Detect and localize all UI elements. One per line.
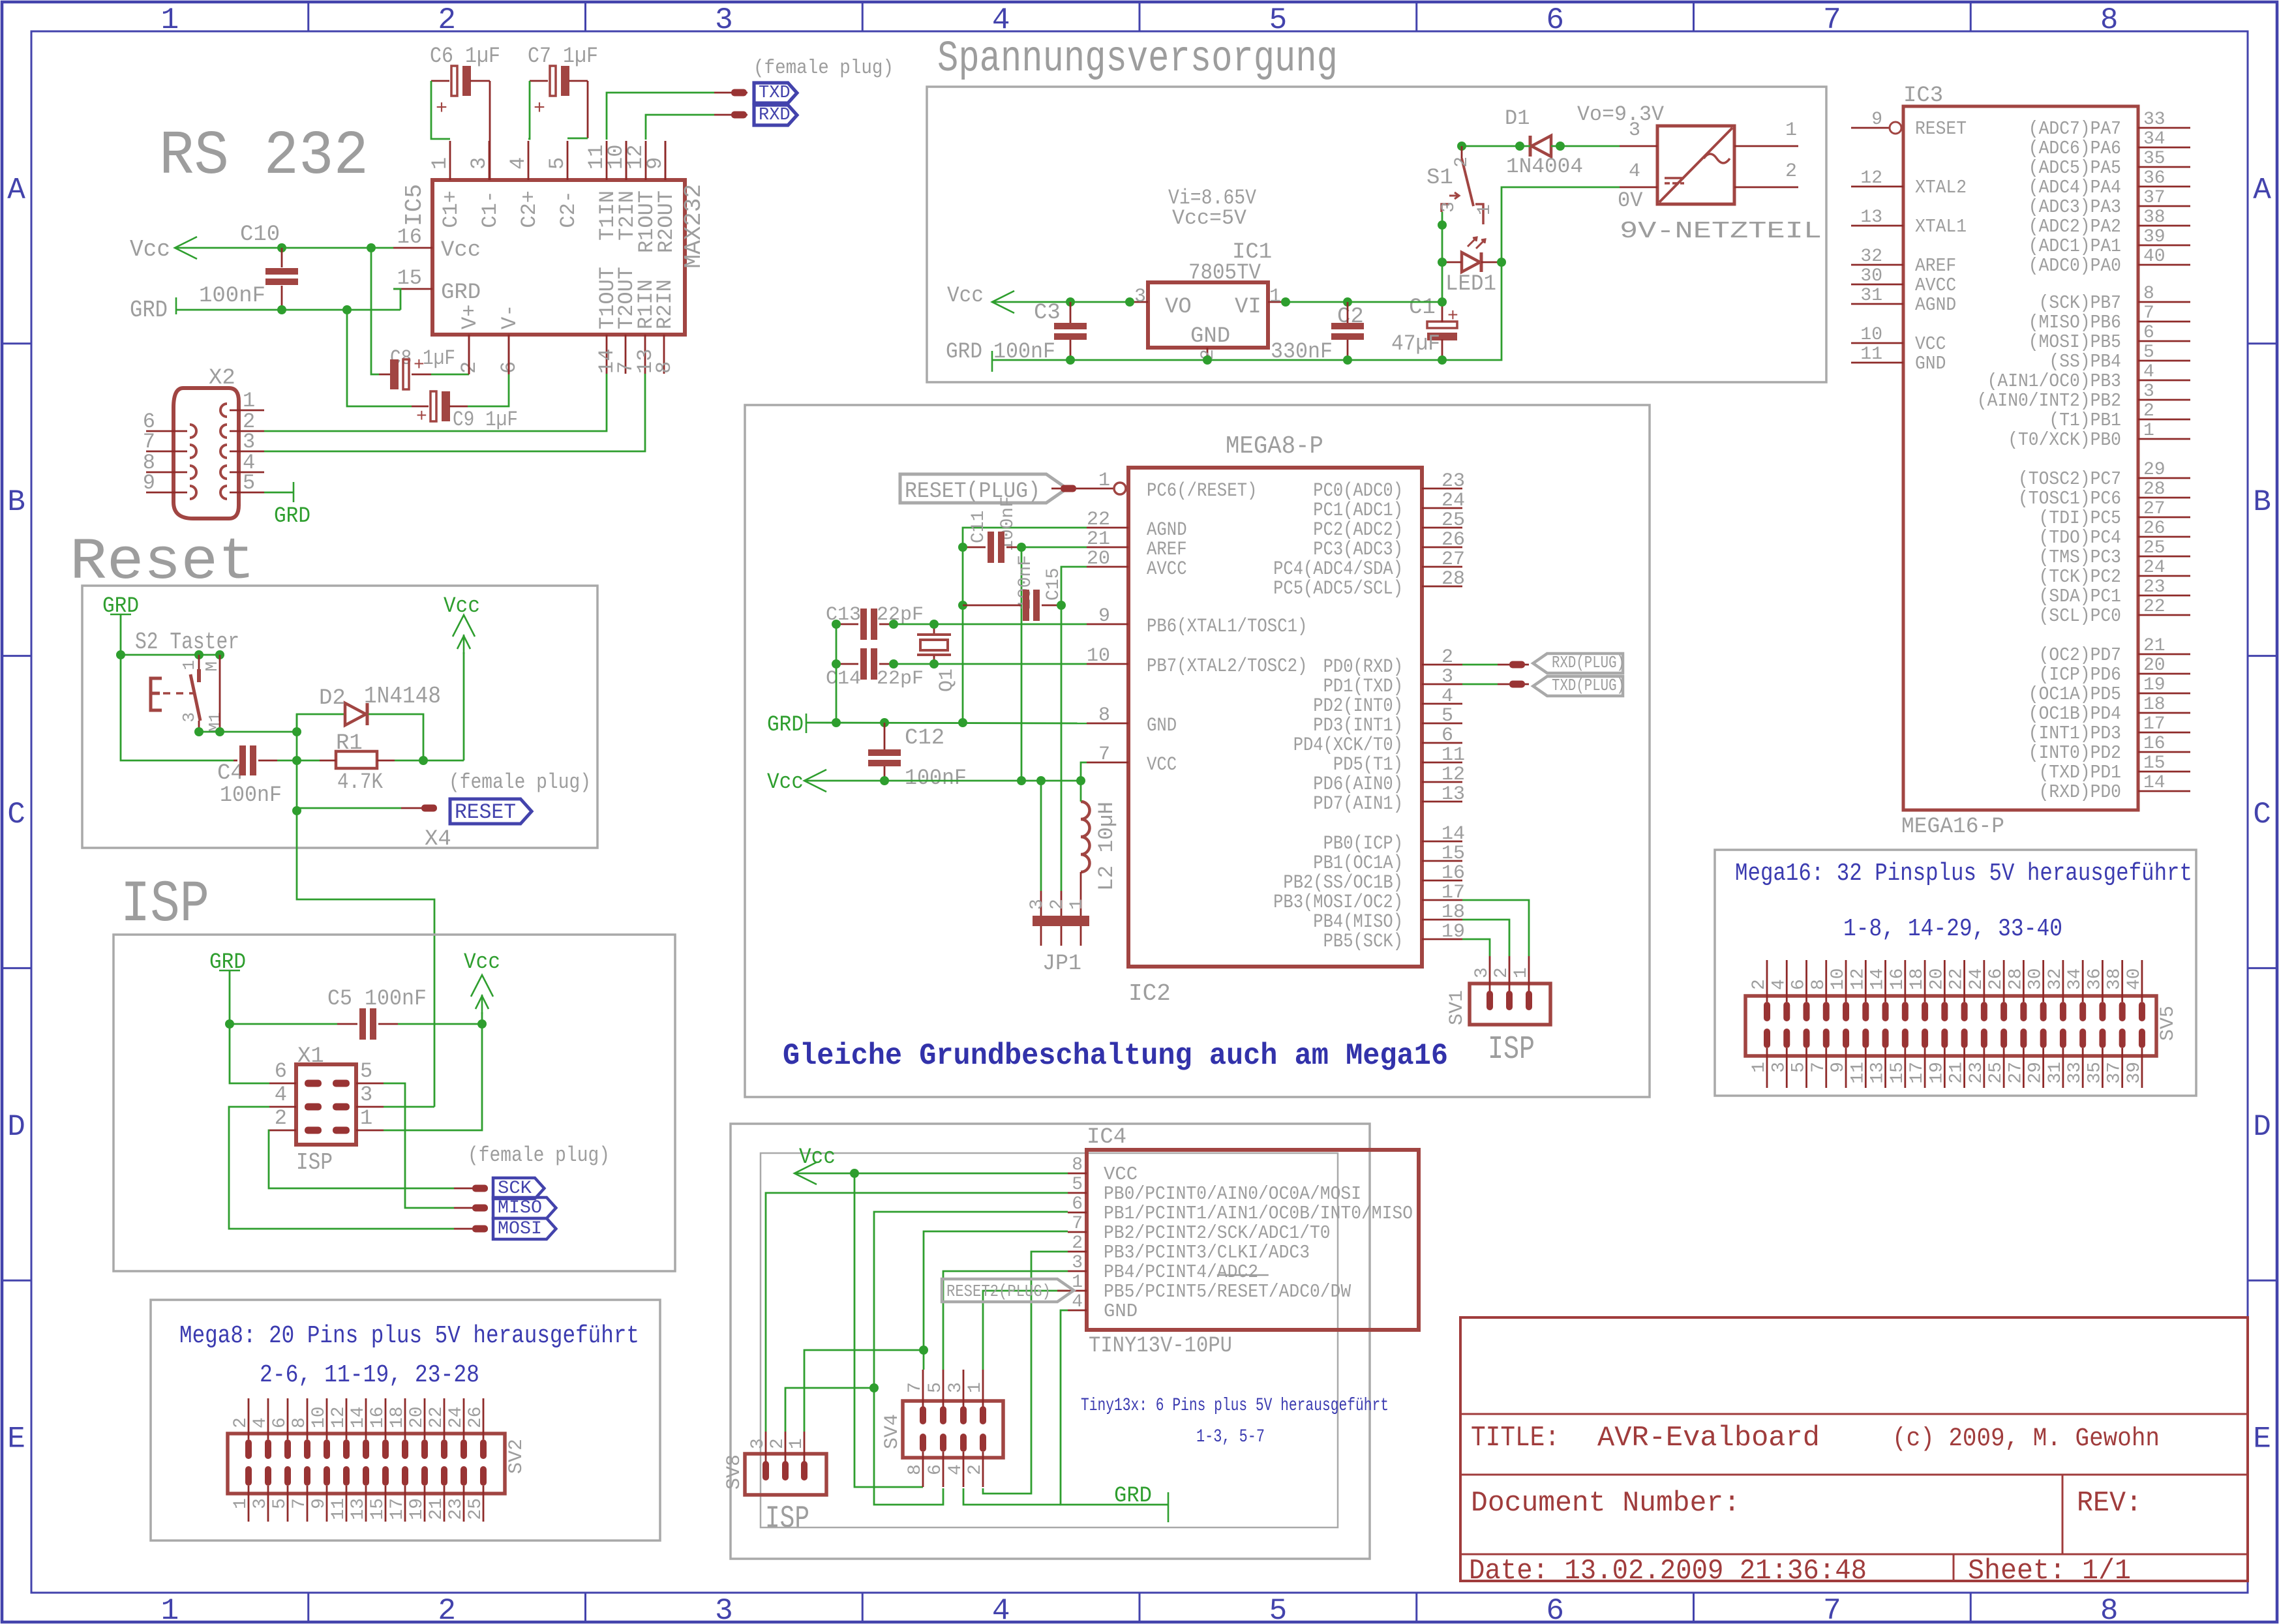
svg-text:C2+: C2+ [517,190,541,228]
svg-text:PB3(MOSI/OC2): PB3(MOSI/OC2) [1273,892,1403,914]
wire C6 left to IC5 pin1 [431,81,450,139]
svg-text:21: 21 [1947,1062,1967,1084]
frame column tick top [1139,3,1141,31]
svg-text:C1-: C1- [478,190,502,228]
IC5 pin 5 C2- [567,141,569,180]
9V-NETZTEIL DC symbol [1665,177,1684,179]
wire R1 to Vcc [395,760,464,762]
svg-text:1: 1 [965,1382,986,1393]
svg-text:33: 33 [2065,1062,2085,1084]
connector X2 DB9 body [174,388,239,519]
flag MOSI [454,1228,488,1230]
svg-text:34: 34 [2143,129,2166,149]
svg-text:2-6, 11-19, 23-28: 2-6, 11-19, 23-28 [260,1361,479,1389]
svg-text:C: C [2253,798,2271,832]
svg-text:1: 1 [787,1438,807,1449]
svg-text:20: 20 [2143,655,2166,676]
svg-text:13: 13 [1860,207,1882,228]
SV5 pin 38 [2121,960,2123,1002]
svg-text:9: 9 [1098,605,1110,627]
svg-text:+: + [416,407,427,427]
SV5 pin 16 [1904,960,1906,1002]
IC IC3 MEGA16 body [1903,106,2138,810]
IC3 pin 22 (SCL)PC0 [2138,614,2190,616]
svg-text:REV:: REV: [2077,1487,2142,1520]
svg-text:Vcc=5V: Vcc=5V [1172,206,1247,230]
svg-text:15: 15 [1441,843,1465,865]
svg-text:VCC: VCC [1147,754,1177,776]
IC3 pin 38 (ADC2)PA2 [2138,225,2190,227]
title block divider REV cell [2062,1475,2064,1554]
svg-text:14: 14 [1868,968,1888,990]
svg-text:4.7K: 4.7K [337,770,384,795]
svg-text:MAX232: MAX232 [680,184,707,269]
LED LED1 [1462,252,1480,272]
svg-text:SV8: SV8 [723,1454,746,1490]
svg-text:6: 6 [1546,1594,1564,1624]
wire Vcc rail tiny [794,1173,1068,1175]
svg-text:GND: GND [1104,1301,1138,1322]
svg-text:C6 1µF: C6 1µF [430,44,500,69]
svg-text:GRD: GRD [946,340,982,365]
svg-text:(SCK)PB7: (SCK)PB7 [2039,292,2121,314]
X2 pin 9 [190,486,196,499]
svg-text:A: A [2253,173,2271,207]
svg-text:6: 6 [2143,323,2154,343]
svg-text:3: 3 [2143,382,2154,402]
svg-text:47µF: 47µF [1391,332,1440,357]
svg-text:(MISO)PB6: (MISO)PB6 [2029,312,2121,333]
connector X1 body [296,1064,356,1145]
svg-text:39: 39 [2124,1062,2145,1084]
svg-text:5: 5 [270,1498,290,1509]
svg-text:(c) 2009, M. Gewohn: (c) 2009, M. Gewohn [1892,1424,2160,1454]
IC2 pin 20 AVCC [1087,566,1128,568]
svg-text:3: 3 [715,3,733,37]
SV5 pin 28 [2023,960,2025,1002]
junction [1017,543,1026,552]
svg-text:PD1(TXD): PD1(TXD) [1323,676,1403,698]
SV4 pin 3 [963,1370,965,1407]
svg-text:XTAL1: XTAL1 [1915,216,1967,237]
IC5 pin 16 Vcc [393,247,432,249]
SV4 pin 1 [982,1370,984,1407]
svg-text:7: 7 [1072,1214,1083,1234]
svg-text:(T0/XCK)PB0: (T0/XCK)PB0 [2008,429,2121,451]
svg-text:3: 3 [1769,1062,1789,1073]
svg-text:29: 29 [2143,460,2166,480]
X2 pin 4 [220,466,227,479]
svg-text:16: 16 [1888,968,1908,990]
junction [1203,355,1212,365]
IC3 pin 26 (TDO)PC4 [2138,536,2190,538]
svg-text:D: D [7,1110,25,1144]
junction [215,727,224,736]
svg-text:6: 6 [1789,979,1809,990]
wire S2 bottom rail [199,731,297,733]
flag RESET2(PLUG) [1057,1290,1068,1292]
IC2 pin 28 PC5(ADC5/SCL) [1422,586,1462,588]
SV5 pin 34 [2082,960,2084,1002]
svg-text:VO: VO [1165,295,1192,320]
svg-text:Mega8: 20 Pins plus 5V herausg: Mega8: 20 Pins plus 5V herausgeführt [179,1322,639,1350]
svg-text:5: 5 [1269,3,1288,37]
SV5 pin 27 [2020,1029,2027,1048]
IC3 pin 25 (TMS)PC3 [2138,556,2190,558]
SV2 pin 13 [363,1466,369,1486]
IC4 pin 7 PB2/PCINT2/SCK/ADC1/T0 [1068,1231,1087,1233]
svg-text:7: 7 [905,1382,926,1393]
section box Tiny13 [731,1124,1370,1559]
svg-text:1: 1 [1475,204,1495,215]
svg-text:+: + [414,355,425,376]
IC3 pin 30 AVCC [1851,284,1903,286]
svg-text:36: 36 [2085,968,2105,990]
svg-text:18: 18 [1907,968,1927,990]
svg-text:Vcc: Vcc [444,594,480,619]
IC2 pin 24 PC1(ADC1) [1422,507,1462,509]
IC3 pin 34 (ADC6)PA6 [2138,147,2190,149]
svg-text:R2OUT: R2OUT [654,190,678,253]
svg-text:M: M [202,661,222,672]
svg-text:24: 24 [1967,968,1987,990]
svg-text:12: 12 [1848,968,1868,990]
svg-text:6: 6 [926,1464,946,1475]
wire junction to SV8 pin1 [804,1350,924,1432]
frame row tick left [3,655,31,657]
frame column tick bottom [307,1593,309,1621]
svg-text:GRD: GRD [767,713,804,738]
svg-text:16: 16 [397,225,422,249]
wire S2 to diode branch [297,714,344,732]
svg-text:Date: 13.02.2009 21:36:48: Date: 13.02.2009 21:36:48 [1469,1555,1867,1587]
SV1 pin 3 [1489,956,1491,993]
wire X1 pin2 to SCK [269,1130,454,1188]
wire C7 right to IC5 pin5 [587,81,589,138]
svg-text:7: 7 [1823,3,1841,37]
junction [1457,142,1466,151]
Vcc arrow isp [471,975,493,997]
SV2 pin 2 [248,1398,250,1439]
wire PD1 to TXD plug [1462,684,1498,685]
junction [958,543,967,552]
svg-text:AVCC: AVCC [1915,275,1956,296]
svg-text:Sheet: 1/1: Sheet: 1/1 [1968,1555,2131,1587]
svg-text:Vcc: Vcc [464,950,500,975]
svg-text:(INT0)PD2: (INT0)PD2 [2029,742,2121,764]
svg-text:(AIN0/INT2)PB2: (AIN0/INT2)PB2 [1977,390,2121,412]
svg-text:ISP: ISP [296,1149,333,1176]
svg-text:18: 18 [387,1406,408,1428]
IC4 pin 1 PB5/PCINT5/RESET/ADC0/DW [1068,1290,1087,1292]
svg-text:6: 6 [1546,3,1564,37]
IC U5 MAX232 body [432,180,685,335]
svg-text:(INT1)PD3: (INT1)PD3 [2029,723,2121,744]
IC2 pin 2 PD0(RXD) [1422,664,1462,666]
svg-text:9V-NETZTEIL: 9V-NETZTEIL [1620,218,1822,245]
svg-text:(ADC2)PA2: (ADC2)PA2 [2029,216,2121,237]
svg-text:39: 39 [2143,227,2166,247]
frame row tick left [3,1280,31,1282]
wire GRD branch to C9 [347,310,412,406]
svg-text:8: 8 [905,1464,926,1475]
svg-text:8: 8 [2100,3,2119,37]
svg-text:1: 1 [161,1594,179,1624]
svg-text:TXD: TXD [759,83,791,103]
wire C8 to IC5 pin2 [431,374,469,376]
SV8 pin 1 [804,1432,806,1463]
SV2 pin 7 [304,1466,310,1486]
junction [215,650,224,659]
svg-text:(ADC7)PA7: (ADC7)PA7 [2029,118,2121,140]
svg-text:PC5(ADC5/SCL): PC5(ADC5/SCL) [1273,578,1403,600]
svg-text:6: 6 [1072,1194,1083,1214]
junction [869,1383,879,1392]
junction [1066,355,1075,365]
junction [194,727,204,736]
svg-text:AGND: AGND [1915,294,1956,316]
svg-text:22pF: 22pF [877,668,924,690]
svg-text:1: 1 [1511,967,1532,978]
svg-text:2: 2 [1072,1233,1083,1254]
IC3 pin 17 (INT1)PD3 [2138,732,2190,734]
wire Vcc to IC5 pin16 [175,247,393,249]
svg-text:7: 7 [1098,744,1110,766]
svg-text:(ADC0)PA0: (ADC0)PA0 [2029,255,2121,277]
X1 pin 2 [305,1127,322,1134]
svg-text:Q1: Q1 [936,669,958,692]
svg-text:PB0(ICP): PB0(ICP) [1323,833,1403,855]
IC3 pin 16 (INT0)PD2 [2138,751,2190,753]
svg-text:TXD(PLUG): TXD(PLUG) [1552,676,1625,695]
IC2 pin 1 PC6(/RESET) [1087,488,1113,490]
svg-text:PB6(XTAL1/TOSC1): PB6(XTAL1/TOSC1) [1147,616,1307,638]
wire reset net down to ISP section [297,811,434,1107]
svg-text:8: 8 [1098,704,1110,727]
svg-text:PB7(XTAL2/TOSC2): PB7(XTAL2/TOSC2) [1147,655,1307,678]
svg-text:PB1(OC1A): PB1(OC1A) [1313,852,1403,875]
svg-text:(ADC4)PA4: (ADC4)PA4 [2029,177,2121,198]
IC3 pin 2 (T1)PB1 [2138,419,2190,421]
svg-text:20: 20 [1927,968,1947,990]
svg-text:3: 3 [1027,899,1048,910]
wire PB3 to SV4 pin2 [983,1252,1068,1494]
IC IC4 TINY13V body [1087,1150,1419,1330]
svg-text:22: 22 [427,1406,447,1428]
svg-text:A: A [7,173,25,207]
svg-text:21: 21 [1087,528,1110,550]
svg-text:19: 19 [407,1498,427,1520]
IC3 pin 15 (TXD)PD1 [2138,771,2190,773]
svg-text:C7 1µF: C7 1µF [528,44,598,69]
svg-text:3: 3 [946,1382,966,1393]
svg-text:C9 1µF: C9 1µF [453,408,518,432]
SV5 pin 13 [1882,1029,1889,1048]
svg-text:8: 8 [2100,1594,2119,1624]
svg-text:C12: C12 [905,726,944,751]
svg-text:RESET: RESET [1915,118,1967,140]
wire X2 pin5 to GRD [264,492,294,494]
svg-text:2: 2 [1048,899,1068,910]
SV4 pin 4 [960,1434,967,1452]
frame column tick bottom [1139,1593,1141,1621]
SV5 pin 24 [1983,960,1985,1002]
crystal Q1 [933,624,935,634]
IC2 pin 8 GND [1087,723,1128,725]
frame row tick right [2248,342,2276,344]
svg-text:B: B [7,485,25,519]
svg-text:MEGA8-P: MEGA8-P [1226,432,1323,460]
svg-text:GRD: GRD [130,297,168,323]
svg-text:1-3, 5-7: 1-3, 5-7 [1196,1427,1265,1447]
junction [1076,776,1085,785]
svg-text:(ADC6)PA6: (ADC6)PA6 [2029,138,2121,159]
9V-NETZTEIL diagonal [1659,128,1732,202]
svg-text:30: 30 [2026,968,2046,990]
junction [1343,297,1352,307]
SV5 pin 2 [1766,960,1768,1002]
IC2 pin 10 PB7(XTAL2/TOSC2) [1087,663,1128,665]
svg-text:Vcc: Vcc [441,238,481,263]
svg-text:IC3: IC3 [1903,83,1943,108]
svg-text:9: 9 [1871,110,1882,130]
wire S2 to C4/R1 branch [296,714,298,811]
wire IC1 pin1 to C2/C1 [1286,301,1442,303]
svg-text:18: 18 [2143,695,2166,715]
svg-text:2: 2 [2143,401,2154,421]
IC2 pin 25 PC2(ADC2) [1422,527,1462,529]
ground GRD at X2 [293,482,295,502]
svg-text:26: 26 [2143,519,2166,539]
svg-text:8: 8 [1072,1155,1083,1175]
SV2 pin 20 [424,1398,426,1439]
frame column tick bottom [584,1593,586,1621]
flag MISO [454,1207,488,1209]
NETZTEIL pin 4 [1620,187,1657,188]
wire SV4 pin4 to GND net [963,1488,1061,1505]
svg-text:4: 4 [992,3,1010,37]
IC3 pin 5 (SS)PB4 [2138,360,2190,362]
SV2 pin 1 [245,1466,252,1486]
svg-text:22pF: 22pF [877,604,924,626]
junction [889,659,898,669]
svg-text:35: 35 [2085,1062,2105,1084]
svg-text:8: 8 [652,361,676,374]
junction [832,620,841,629]
SV4 pin 5 [943,1370,944,1407]
wire Vcc to VCC pin7 [1081,762,1087,781]
svg-text:2: 2 [1785,160,1797,183]
svg-text:S1: S1 [1426,166,1453,190]
svg-text:23: 23 [1967,1062,1987,1084]
svg-text:(OC2)PD7: (OC2)PD7 [2039,644,2121,666]
wire S2 top rail [121,654,220,656]
wire GRD down to C5 rail [229,970,231,1024]
svg-text:2: 2 [1749,979,1770,990]
svg-text:1N4004: 1N4004 [1506,155,1583,179]
SV5 pin 32 [2062,960,2064,1002]
svg-text:C2-: C2- [556,190,581,228]
svg-text:7: 7 [2143,303,2154,323]
X2 pin 8 [190,466,196,479]
IC3 pin 23 (SDA)PC1 [2138,595,2190,597]
svg-text:3: 3 [179,712,199,723]
IC3 pin 14 (RXD)PD0 [2138,790,2190,792]
svg-text:3: 3 [748,1438,768,1449]
SV5 pin 33 [2079,1029,2086,1048]
wire AGND to C11 net [963,528,1087,547]
IC3 pin 8 (SCK)PB7 [2138,301,2190,303]
svg-text:17: 17 [2143,714,2166,734]
svg-text:5: 5 [1789,1062,1809,1073]
svg-text:3: 3 [467,157,491,170]
wire C9 to IC5 pin6 [468,374,509,406]
svg-text:IC2: IC2 [1128,980,1171,1007]
svg-text:24: 24 [2143,558,2166,578]
wire X1 pin1 to Vcc [384,1024,482,1130]
svg-text:C11: C11 [969,511,989,543]
IC3 pin 36 (ADC4)PA4 [2138,186,2190,188]
svg-text:2: 2 [1452,157,1472,168]
IC3 pin 3 (AIN0/INT2)PB2 [2138,399,2190,401]
IC4 pin 4 GND [1068,1310,1087,1312]
svg-text:PD3(INT1): PD3(INT1) [1313,715,1403,737]
svg-text:6: 6 [270,1417,290,1428]
svg-text:30: 30 [1860,266,1882,286]
svg-text:PD6(AIN0): PD6(AIN0) [1313,774,1403,796]
svg-text:GND: GND [1915,353,1946,374]
svg-text:GND: GND [1190,324,1230,349]
svg-text:C1: C1 [1409,295,1436,320]
JP1 pin 2 [1061,891,1063,916]
SV2 pin 18 [404,1398,406,1439]
svg-text:Vcc: Vcc [799,1145,836,1170]
svg-text:VI: VI [1235,295,1261,320]
IC5 pin 8 R2IN [663,335,665,374]
JP1 pin 3 [1040,891,1042,916]
svg-text:Document Number:: Document Number: [1471,1487,1740,1520]
svg-text:AREF: AREF [1147,539,1187,561]
svg-text:Spannungsversorgung: Spannungsversorgung [937,35,1338,84]
IC5 pin10 stub [626,141,627,180]
IC3 pin 12 XTAL2 [1851,186,1903,188]
svg-text:9: 9 [143,471,155,495]
junction [1438,355,1447,365]
svg-text:20: 20 [407,1406,427,1428]
SV5 pin 26 [2003,960,2005,1002]
svg-text:(AIN1/OC0)PB3: (AIN1/OC0)PB3 [1987,370,2121,392]
wire PB5 to SV4 pin1 [983,1291,1068,1370]
svg-text:26: 26 [1986,968,2006,990]
svg-text:4: 4 [1072,1292,1083,1312]
section box Mega16 pins [1715,850,2196,1096]
X2 pin 1 [220,404,227,417]
IC2 pin 23 PC0(ADC0) [1422,488,1462,490]
IC4 pin 8 VCC [1068,1173,1087,1175]
svg-text:5: 5 [545,157,569,170]
svg-text:27: 27 [1441,549,1465,571]
Vcc arrow tiny [794,1162,817,1184]
SV4 pin 7 [922,1370,924,1407]
junction [880,776,889,785]
SV8 pin 3 [765,1432,767,1463]
svg-text:PD2(INT0): PD2(INT0) [1313,695,1403,717]
IC5 pin9 stub [665,141,667,180]
svg-text:(female plug): (female plug) [449,770,591,794]
svg-text:D1: D1 [1505,106,1530,130]
SV5 pin 29 [2040,1029,2047,1048]
svg-text:33: 33 [2143,110,2166,130]
